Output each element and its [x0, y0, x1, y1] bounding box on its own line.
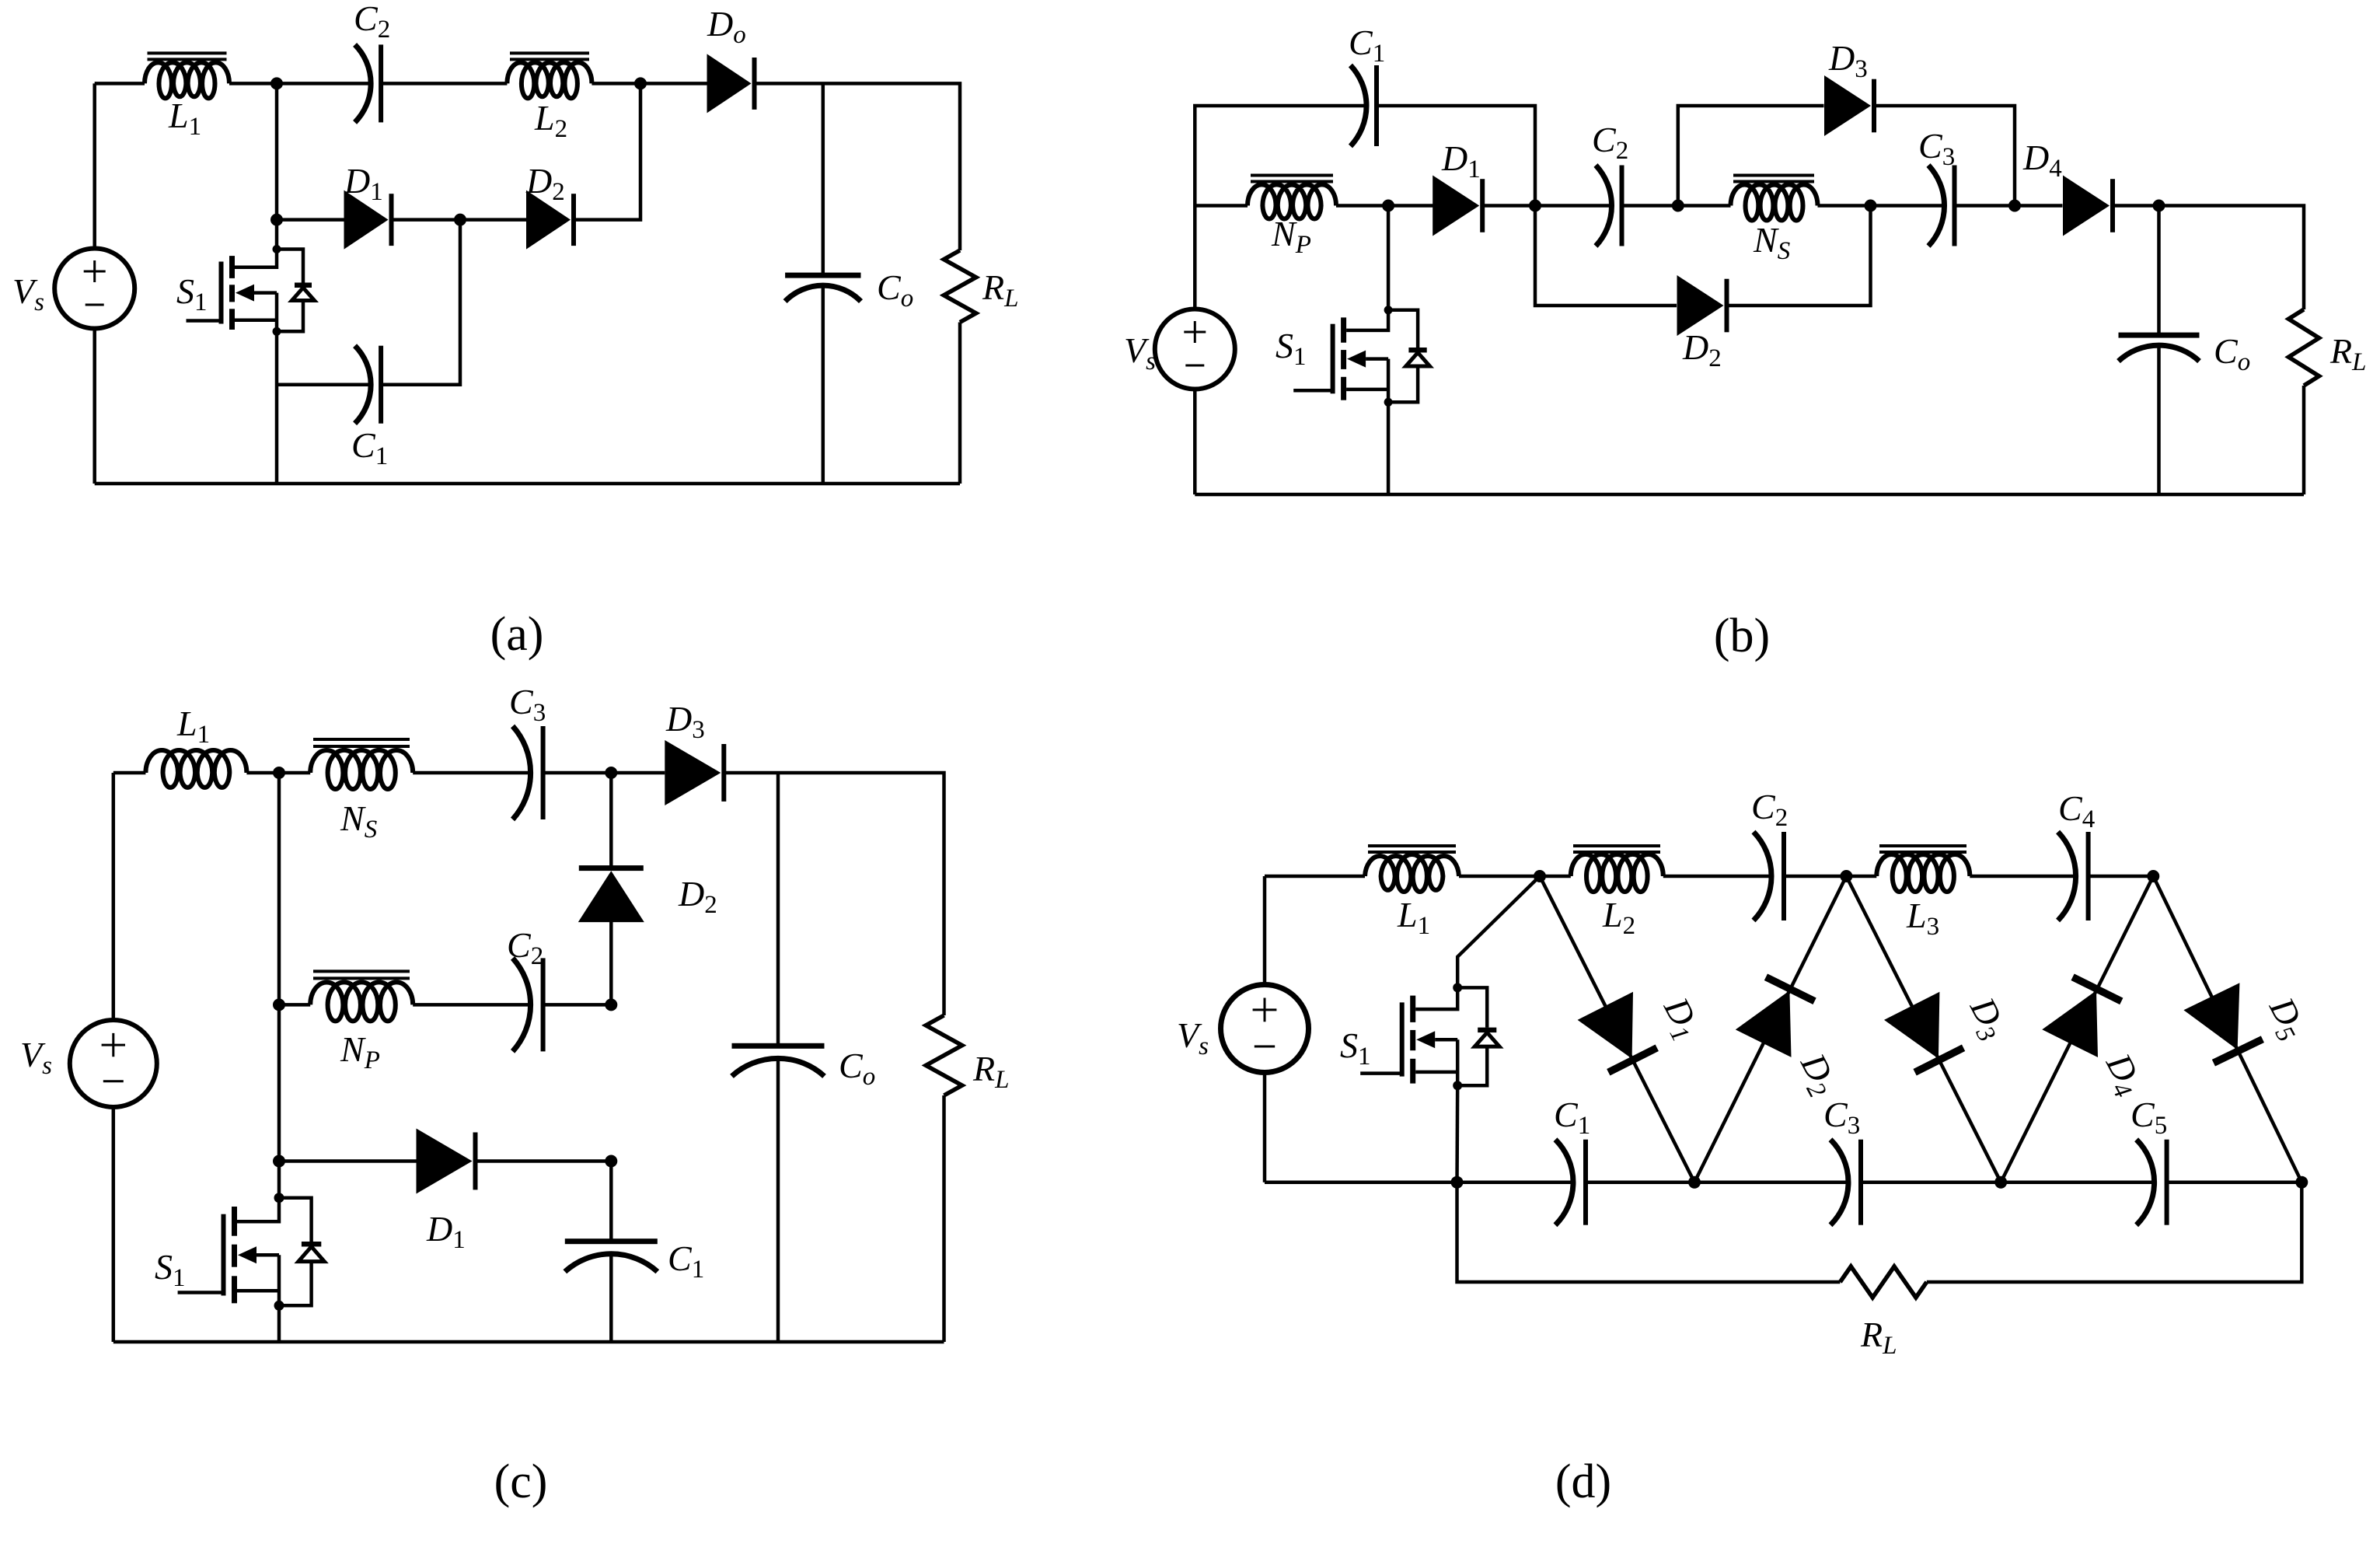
- wire: L1 to node A1: [229, 82, 277, 86]
- wire: Co to bottom rail (c): [776, 1059, 780, 1343]
- wire: node4 to C3 (b): [1871, 204, 1944, 208]
- diode D1: [344, 190, 389, 250]
- node1 dot (d): [1534, 870, 1546, 882]
- diode Do: [707, 54, 752, 113]
- node4 dot (b): [1865, 200, 1877, 212]
- svg-text:(d): (d): [1555, 1455, 1611, 1508]
- voltage source Vs (d): [1221, 985, 1309, 1073]
- capacitor Co (b): [2119, 333, 2200, 338]
- wire: C2 to D2 column (c): [543, 1003, 612, 1007]
- capacitor C2: [355, 44, 372, 122]
- wire: S1 (b) source to bottom rail: [1387, 402, 1391, 494]
- diode D1 (b): [1433, 176, 1479, 236]
- svg-text:(c): (c): [494, 1455, 548, 1508]
- wire: Do to top-right corner and right rail down to RL: [752, 83, 960, 250]
- capacitor C2 (b): [1596, 166, 1612, 246]
- coupled inductor NS (c): [310, 750, 413, 789]
- wire: mid node to D2: [460, 218, 526, 222]
- inductor L2 (d): [1540, 875, 1571, 879]
- wire: S1 (d) source to C-row node: [1455, 1085, 1459, 1182]
- wire: D2 column D1-row to C1 (c): [609, 1161, 613, 1243]
- capacitor C3 (d): [1830, 1140, 1848, 1225]
- wire: NS to node4: [1818, 204, 1871, 208]
- transistor S1 (b) MOSFET: [1387, 206, 1391, 310]
- inductor L3 (d): [1846, 875, 1876, 879]
- wire: L1 to node1 (d): [1459, 875, 1540, 879]
- wire: D3 to top-right corner, down right rail to RL (c): [723, 773, 944, 1015]
- node5 dot (b): [2008, 200, 2021, 212]
- capacitor Co (c): [732, 1043, 825, 1049]
- node after NP dot: [1382, 200, 1394, 212]
- wire: C1 to node2 column, down to main row: [1377, 106, 1535, 206]
- node at S1 source on C-row dot (d): [1451, 1176, 1464, 1189]
- wire: C1 to bottom rail (c): [609, 1254, 613, 1342]
- wire: Co branch (b): [2157, 206, 2161, 336]
- node A dot (d): [1688, 1176, 1701, 1189]
- capacitor C3 (c): [513, 726, 531, 819]
- wire: C2 to L2: [381, 82, 507, 86]
- wire: Co branch from top rail down to Co: [822, 83, 825, 275]
- capacitor C1 (c) vertical: [565, 1238, 658, 1244]
- svg-text:(a): (a): [490, 608, 544, 661]
- wire: C1 to node A (d): [1586, 1180, 1694, 1184]
- wire: circuit (d) top rail left: [1265, 875, 1365, 879]
- wire: C1 row from S1 column to capacitor C1: [277, 383, 370, 386]
- inductor L2: [507, 62, 592, 98]
- inductor L1 (d): [1365, 854, 1459, 892]
- wire: node6 to right rail, down to RL (b): [2159, 206, 2305, 310]
- wire: node to diode D1 (b): [1388, 204, 1434, 208]
- resistor RL (d): [1840, 1266, 1926, 1298]
- wire: D3 branch riser from node3 up: [1678, 106, 1824, 206]
- diode D3 (d) on diagonal node2-B: [1846, 876, 2001, 1182]
- capacitor C4 (d): [2058, 832, 2076, 920]
- node between D1 and D2 dot: [454, 214, 466, 226]
- wire: C3 to node B (d): [1861, 1180, 2001, 1184]
- diode D3 (b): [1824, 75, 1871, 136]
- inductor L1: [145, 62, 229, 98]
- wire: D3 to node5 column, down to main row: [1875, 106, 2015, 206]
- capacitor C1: [355, 346, 372, 424]
- wire: D2 to node4 riser: [1728, 206, 1871, 306]
- wire: C4 to node3 (d): [2089, 875, 2154, 879]
- wire: D2 to x824 corner up to node A2: [576, 83, 641, 219]
- diode D1 (d) on diagonal node1-A: [1540, 876, 1694, 1182]
- voltage source Vs (c): [112, 773, 116, 1020]
- wire: main row left segment to NP: [1195, 204, 1248, 208]
- node3 dot (b): [1672, 200, 1684, 212]
- node on D1 row right dot (c): [605, 1155, 617, 1168]
- capacitor C2 (c): [513, 958, 531, 1051]
- diode D5 (d) on diagonal node3-corner: [2153, 876, 2301, 1182]
- wire: bottom rail (c): [113, 1340, 944, 1344]
- wire: RL to bottom rail (c): [942, 1095, 946, 1342]
- voltage source Vs: [92, 83, 96, 248]
- wire: NS to C3 (c): [413, 771, 529, 775]
- wire: C3 to node2 (c): [543, 771, 612, 775]
- wire: L2 to node A2: [592, 82, 640, 86]
- wire: S1 (c) source to bottom rail: [277, 1305, 281, 1342]
- wire: node A2 to diode Do: [640, 82, 707, 86]
- wire: RL to bottom rail (b): [2302, 386, 2306, 494]
- wire: C1 to x592 riser up to D-row mid node: [381, 220, 460, 385]
- inductor L1 (c): [145, 750, 246, 788]
- diode D4 (b): [2063, 176, 2110, 236]
- wire: RL to right corner (d): [1927, 1182, 2302, 1282]
- transistor S1 (c) MOSFET: [277, 1161, 281, 1198]
- wire: node1 to NS (c): [279, 771, 310, 775]
- right corner node dot (d): [2295, 1176, 2308, 1189]
- wire: D2 column from node2 down to D2 (c): [609, 773, 613, 868]
- wire: D4 to node6: [2113, 204, 2159, 208]
- node2 dot (c): [605, 767, 617, 779]
- wire: NP to C2 (c): [413, 1003, 529, 1007]
- resistor RL: [944, 250, 975, 323]
- wire: node1 column down to C2 row (c): [277, 773, 281, 1004]
- wire: node2 to D3 (c): [611, 771, 665, 775]
- resistor RL (b): [2288, 309, 2319, 386]
- node2 dot (b): [1529, 200, 1541, 212]
- diode D3 (c): [665, 740, 721, 805]
- diode D2 (d) on diagonal A-node2: [1694, 876, 1846, 1182]
- coupled inductor NS: [1731, 184, 1818, 220]
- wire: D2 to C2-row node (c): [609, 922, 613, 1004]
- capacitor Co: [785, 273, 860, 278]
- wire: C2 to node3: [1622, 204, 1678, 208]
- node1 dot (c): [273, 767, 285, 779]
- diode D1 (c): [417, 1129, 473, 1194]
- node2 dot (d): [1840, 870, 1852, 882]
- capacitor C1 (b): [1351, 65, 1367, 146]
- coupled inductor NP (c): [310, 982, 413, 1021]
- transistor S1 (MOSFET): [275, 220, 279, 250]
- wire: node A1 to C2: [277, 82, 370, 86]
- node on D-row at x356 dot: [270, 214, 283, 226]
- wire: node2 to C2 (b): [1535, 204, 1611, 208]
- wire: C3 to node5: [1955, 204, 2015, 208]
- wire: S1 source down to bottom rail: [275, 331, 279, 484]
- wire: circuit (a) top rail left segment: [95, 82, 145, 86]
- diode D2: [526, 190, 571, 250]
- node3 dot (d): [2147, 870, 2159, 882]
- wire: Co branch from top (c): [776, 773, 780, 1046]
- wire: C2 to node2 (d): [1784, 875, 1846, 879]
- coupled inductor NP: [1248, 184, 1336, 218]
- node A1 junction dot: [270, 77, 283, 89]
- diode D4 (d) on diagonal B-node3: [2001, 876, 2153, 1182]
- node left of NP dot (c): [273, 998, 285, 1011]
- capacitor C3 (b): [1928, 166, 1945, 246]
- capacitor C5 (d): [2137, 1140, 2155, 1225]
- node on D1 row left dot (c): [273, 1155, 285, 1168]
- wire: D1 to mid node: [393, 218, 460, 222]
- wire: bottom C-row left segment (d): [1265, 1180, 1572, 1184]
- diode D2 (c) vertical pointing up: [579, 865, 644, 871]
- node B dot (d): [1994, 1176, 2007, 1189]
- wire: circuit (c) top rail left: [113, 771, 146, 775]
- wire: D1 row to diode (c): [279, 1159, 417, 1163]
- wire: node1 to NP lead (c): [279, 1003, 310, 1007]
- wire: Co to bottom rail: [822, 286, 825, 484]
- wire: C5 to right corner (d): [2167, 1180, 2302, 1184]
- wire: node B to C5 (d): [2001, 1180, 2152, 1184]
- node right of C2 dot (c): [605, 998, 617, 1011]
- node6 dot (b): [2153, 200, 2165, 212]
- wire: L2 to C2 (d): [1663, 875, 1770, 879]
- wire: D1 to node2: [1483, 204, 1535, 208]
- wire: D1 to right node on D1 row (c): [474, 1159, 611, 1163]
- wire: left rail to Vs (d): [1263, 876, 1267, 985]
- diode D2 (b): [1677, 275, 1724, 336]
- wire: D-row node to D1: [277, 218, 344, 222]
- wire: node5 to D4: [2015, 204, 2063, 208]
- wire: RL loop (d): [1457, 1182, 1841, 1282]
- wire: node A1 down to D-row: [275, 83, 279, 219]
- wire: L3 to C4 (d): [1970, 875, 2074, 879]
- wire: node A to C3 (d): [1694, 1180, 1847, 1184]
- wire: RL bottom to bottom rail: [958, 323, 962, 484]
- capacitor C2 (d): [1754, 832, 1771, 920]
- wire: circuit (b) top branch with C1: [1195, 106, 1365, 206]
- capacitor C1 (d): [1555, 1140, 1573, 1225]
- voltage source Vs (b): [1193, 206, 1197, 309]
- wire: bottom rail (b): [1195, 493, 2304, 497]
- svg-text:(b): (b): [1714, 610, 1770, 662]
- wire: Co to bottom rail (b): [2157, 346, 2161, 495]
- wire: node3 to NS: [1678, 204, 1731, 208]
- node A2 junction dot: [634, 77, 647, 89]
- wire: bottom rail of circuit (a): [95, 482, 960, 486]
- transistor S1 (d) MOSFET with drain link to node1: [1457, 876, 1540, 987]
- wire: L1 to node1 (c): [246, 771, 279, 775]
- wire: NP to drain node column: [1336, 204, 1388, 208]
- wire: D2 lower branch from node2 down: [1535, 206, 1677, 306]
- wire: node1 column down to D1 row (c): [277, 1004, 281, 1161]
- resistor RL (c): [926, 1015, 962, 1095]
